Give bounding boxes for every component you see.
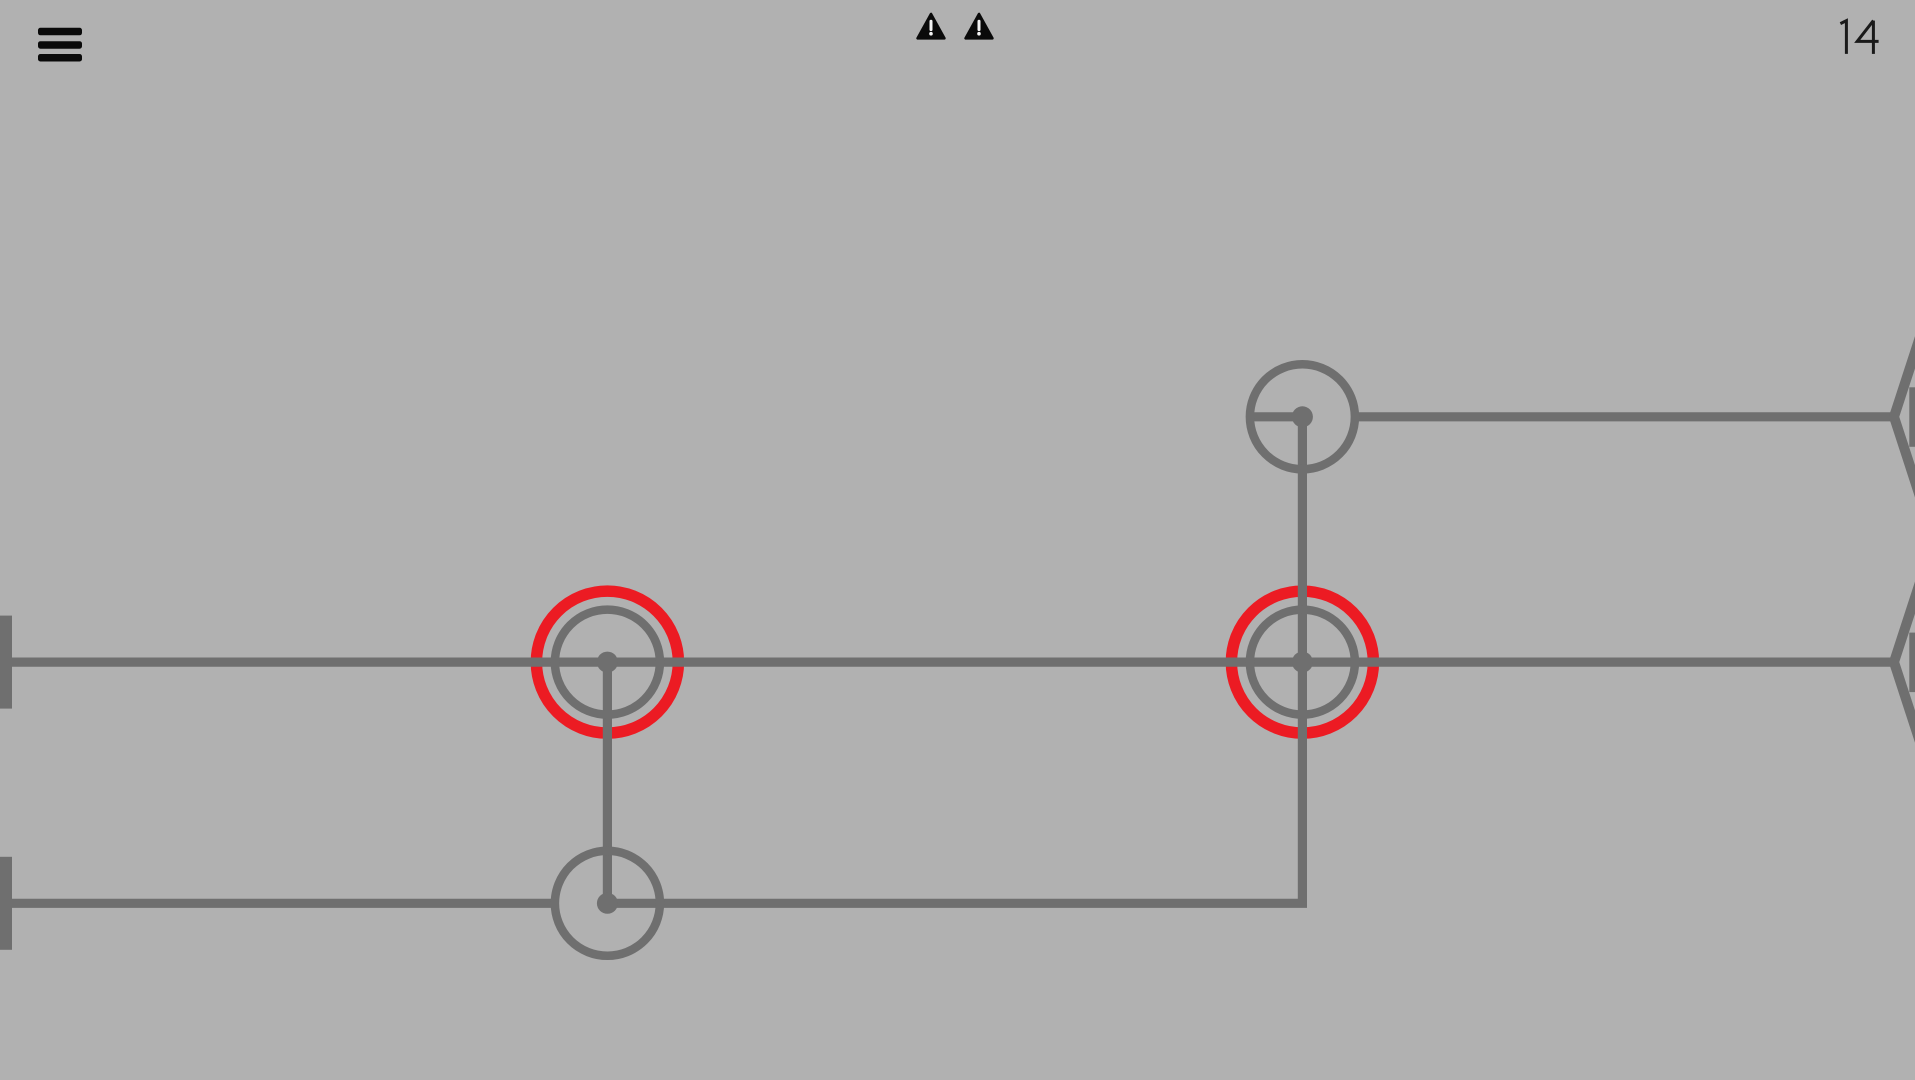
node B circle bbox=[555, 610, 660, 715]
node D dot bbox=[597, 893, 618, 914]
wire row3 right + riser to node A (elbow at 1302.5,903.5) bbox=[607, 417, 1302, 904]
menu icon (hamburger) bbox=[38, 28, 82, 62]
wire colB vertical (node B dot to node D dot) bbox=[603, 662, 612, 903]
node C circle bbox=[1250, 610, 1355, 715]
warning icon 1 bbox=[918, 14, 945, 38]
node C dot bbox=[1292, 652, 1313, 673]
wire row2 horizontal (left edge to right exit) bbox=[0, 657, 1892, 666]
node B red ring bbox=[536, 591, 678, 733]
right exit chevron row1 bbox=[1894, 327, 1915, 508]
node C red ring bbox=[1231, 591, 1373, 733]
node D circle bbox=[555, 851, 660, 956]
left terminal bar row3 bbox=[0, 857, 12, 950]
node A dot bbox=[1292, 406, 1313, 427]
level number 14 bbox=[1840, 21, 1878, 54]
wire row1 stub inside node A bbox=[1250, 412, 1303, 421]
warning icon 2 bbox=[966, 14, 993, 38]
node A circle bbox=[1250, 364, 1355, 469]
wire row3 left segment bbox=[0, 899, 551, 908]
wire row1 right segment to exit bbox=[1355, 412, 1892, 421]
right exit chevron row2 bbox=[1894, 572, 1915, 753]
left terminal bar row2 bbox=[0, 616, 12, 709]
node B dot bbox=[597, 652, 618, 673]
right exit band row2 bbox=[1909, 633, 1915, 693]
right exit band row1 bbox=[1909, 387, 1915, 447]
